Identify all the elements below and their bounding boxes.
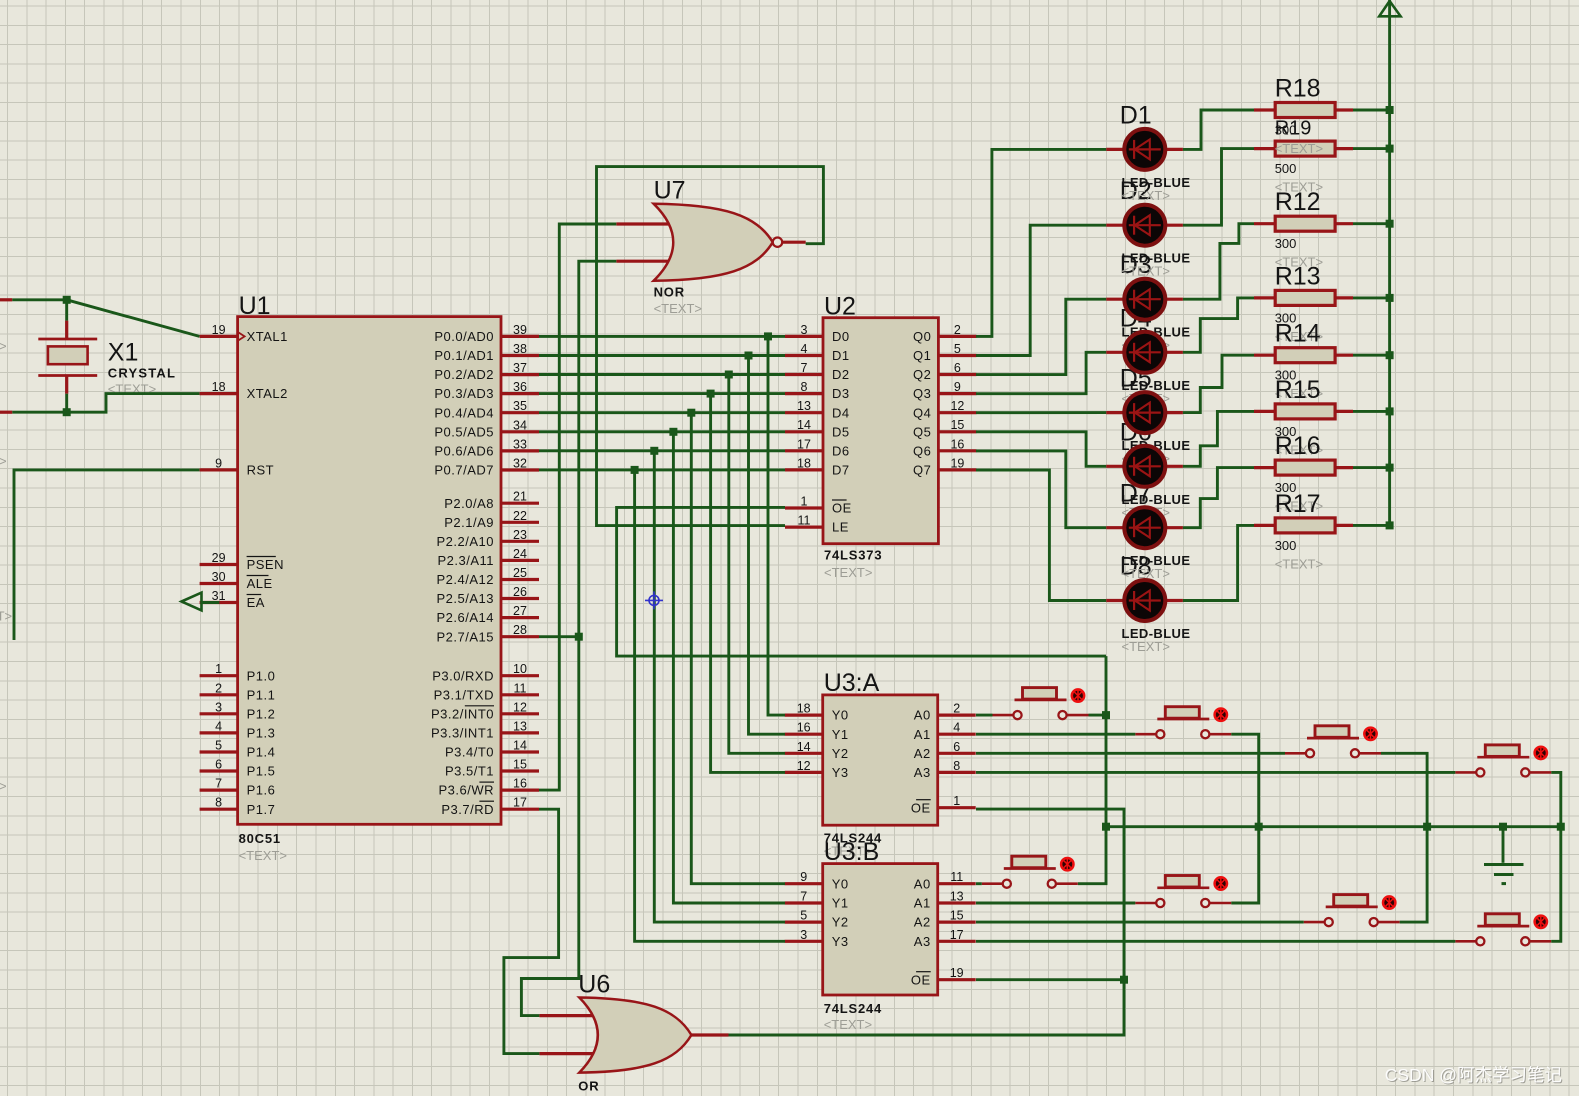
svg-text:7: 7 <box>800 890 807 904</box>
U2 pin 17 D6 <box>785 449 823 452</box>
U1 pin 34 P0.5/AD5 <box>501 430 539 433</box>
ground symbol <box>1484 827 1524 884</box>
svg-text:2: 2 <box>215 681 222 695</box>
svg-text:P0.3/AD3: P0.3/AD3 <box>434 386 494 401</box>
U2 pin 9 Q3 <box>938 392 976 395</box>
svg-text:P3.2/INT0: P3.2/INT0 <box>431 706 494 721</box>
svg-text:D1: D1 <box>832 348 850 363</box>
svg-text:38: 38 <box>513 342 527 356</box>
svg-text:P0.1/AD1: P0.1/AD1 <box>434 348 494 363</box>
wire P0.7 bus drop vertical <box>635 470 785 941</box>
microcontroller U1 80C51 body <box>238 317 501 825</box>
U1 pin 3 P1.2 <box>200 712 238 715</box>
U1 pin 6 P1.5 <box>200 769 238 772</box>
edge pin stub top-left <box>0 298 12 301</box>
wire common column 2 <box>1231 734 1258 903</box>
op-gate U7 NOR body <box>654 204 773 281</box>
svg-text:26: 26 <box>513 585 527 599</box>
svg-text:39: 39 <box>513 323 527 337</box>
svg-text:XTAL2: XTAL2 <box>247 386 288 401</box>
U3:A pin 12 Y3 <box>785 771 823 774</box>
U1 pin 31 EA <box>200 601 238 604</box>
wire XTAL2 net: edge to riser <box>12 394 199 413</box>
wire LED D3 to resistor R12 <box>1183 224 1254 300</box>
junction VCC bus at R17 <box>1386 521 1394 529</box>
svg-text:RST: RST <box>247 463 275 478</box>
svg-text:R18: R18 <box>1275 75 1321 103</box>
wire U3:A A1 to SW2 <box>976 733 1135 736</box>
svg-text:15: 15 <box>950 909 964 923</box>
EA input terminal arrow <box>182 593 202 611</box>
OR gate U6 input stub 2 <box>539 1052 594 1055</box>
svg-text:P2.0/A8: P2.0/A8 <box>444 496 494 511</box>
wire LED D6 to resistor R15 <box>1183 411 1254 466</box>
svg-text:23: 23 <box>513 528 527 542</box>
wire U3:A A2 to SW3 <box>976 752 1285 755</box>
junction node AD0 <box>764 332 772 340</box>
svg-text:LE: LE <box>832 520 849 535</box>
wire Q1 to LED D2 <box>976 225 1106 355</box>
U6 output stub <box>691 1033 728 1036</box>
U1 pin 32 P0.7/AD7 <box>501 468 539 471</box>
svg-text:13: 13 <box>797 399 811 413</box>
svg-text:9: 9 <box>800 870 807 884</box>
push button SW5 <box>982 856 1078 888</box>
svg-text:R16: R16 <box>1275 432 1321 460</box>
svg-text:Q7: Q7 <box>913 463 931 478</box>
U2 pin 13 D4 <box>785 411 823 414</box>
U1 pin 7 P1.6 <box>200 788 238 791</box>
U1 pin 37 P0.2/AD2 <box>501 373 539 376</box>
wire common column 1 <box>1078 656 1106 884</box>
svg-text:P3.0/RXD: P3.0/RXD <box>432 668 494 683</box>
svg-text:17: 17 <box>513 796 527 810</box>
svg-text:5: 5 <box>954 342 961 356</box>
svg-text:T>: T> <box>0 339 7 354</box>
svg-text:U1: U1 <box>239 292 271 320</box>
junction node AD3 <box>707 390 715 398</box>
svg-text:13: 13 <box>950 890 964 904</box>
svg-text:80C51: 80C51 <box>239 831 281 846</box>
svg-text:6: 6 <box>215 758 222 772</box>
svg-text:D7: D7 <box>832 463 850 478</box>
svg-text:3: 3 <box>215 700 222 714</box>
U1 pin 22 P2.1/A9 <box>501 521 539 524</box>
svg-text:R17: R17 <box>1275 490 1321 518</box>
U2 pin 2 Q0 <box>938 335 976 338</box>
wire P0.6 bus drop vertical <box>654 451 785 922</box>
svg-text:9: 9 <box>215 456 222 470</box>
svg-text:11: 11 <box>514 681 527 695</box>
svg-text:OE: OE <box>911 800 931 815</box>
resistor R18 (300 ohm) <box>1254 103 1353 118</box>
U1 pin 36 P0.3/AD3 <box>501 392 539 395</box>
wire XTAL1 net: diagonal to pin 19 <box>67 300 200 337</box>
latch U2 74LS373 body <box>823 318 938 544</box>
svg-text:P1.6: P1.6 <box>247 783 276 798</box>
svg-text:12: 12 <box>950 399 964 413</box>
svg-text:D3: D3 <box>832 386 850 401</box>
svg-text:P2.4/A12: P2.4/A12 <box>437 572 495 587</box>
U1 pin 5 P1.4 <box>200 750 238 753</box>
svg-text:P3.5/T1: P3.5/T1 <box>445 764 494 779</box>
U1 pin 30 ALE <box>200 582 238 585</box>
wire R19 to VCC bus <box>1353 147 1390 150</box>
svg-text:P1.3: P1.3 <box>247 726 276 741</box>
svg-text:15: 15 <box>513 758 527 772</box>
svg-text:P2.1/A9: P2.1/A9 <box>444 515 494 530</box>
svg-text:P1.7: P1.7 <box>247 802 276 817</box>
push button SW6 <box>1135 876 1231 908</box>
U2 pin 6 Q2 <box>938 373 976 376</box>
svg-text:14: 14 <box>513 739 527 753</box>
U3:A pin 18 Y0 <box>785 713 823 716</box>
U1 pin 39 P0.0/AD0 <box>501 335 539 338</box>
junction node P2.7 <box>575 633 583 641</box>
wire Q6 to LED D7 <box>976 451 1106 528</box>
wire XTAL2 net: crystal bottom lead <box>65 394 68 413</box>
resistor R12 (300 ohm) <box>1254 216 1353 231</box>
svg-text:1: 1 <box>801 495 808 509</box>
power VCC terminal arrow <box>1379 1 1400 16</box>
wire ground bus horizontal <box>1106 825 1561 828</box>
svg-text:A2: A2 <box>914 915 931 930</box>
svg-text:OE: OE <box>832 501 852 516</box>
U3:B pin 5 Y2 <box>785 920 823 923</box>
svg-text:300: 300 <box>1275 538 1297 553</box>
junction XTAL2 net at crystal bottom <box>63 408 71 416</box>
svg-text:U3:B: U3:B <box>824 838 880 866</box>
junction node AD5 <box>669 428 677 436</box>
svg-text:500: 500 <box>1275 161 1297 176</box>
U3:B pin 11 A0 <box>938 882 976 885</box>
wire R12 to VCC bus <box>1353 222 1390 225</box>
svg-text:74LS373: 74LS373 <box>824 548 882 563</box>
U2 pin 3 D0 <box>785 335 823 338</box>
edge pin stub mid-left <box>0 411 12 414</box>
svg-text:T>: T> <box>0 779 7 794</box>
svg-text:P1.1: P1.1 <box>247 687 276 702</box>
svg-text:14: 14 <box>797 740 811 754</box>
wire P0.1/AD1 net horizontal (U1 pin to U2 D1) <box>539 354 785 357</box>
U3:A pin 6 A2 <box>938 752 976 755</box>
junction column4 at ground bus <box>1557 823 1565 831</box>
U1 pin 16 P3.6/WR <box>501 788 539 791</box>
svg-text:16: 16 <box>797 721 811 735</box>
wire Q2 to LED D3 <box>976 299 1106 374</box>
U1 XTAL1 clock arrow <box>238 332 245 341</box>
svg-text:21: 21 <box>513 490 527 504</box>
wire U3:B A0 to SW5 <box>976 882 982 885</box>
svg-text:17: 17 <box>950 928 964 942</box>
junction VCC bus at R12 <box>1386 220 1394 228</box>
svg-text:30: 30 <box>212 570 226 584</box>
wire P3.6/WR to U7 input 1 riser <box>539 224 616 790</box>
svg-text:7: 7 <box>801 361 808 375</box>
svg-text:Y2: Y2 <box>832 915 849 930</box>
resistor R19 (500 ohm) <box>1254 141 1353 156</box>
U3:B pin 9 Y0 <box>785 882 823 885</box>
U2 pin 5 Q1 <box>938 354 976 357</box>
U2 pin 16 Q6 <box>938 449 976 452</box>
svg-text:33: 33 <box>513 437 527 451</box>
svg-text:R15: R15 <box>1275 376 1321 404</box>
wire U2 OE net to ground bus riser <box>617 507 1106 656</box>
svg-text:D0: D0 <box>832 329 850 344</box>
svg-text:Y2: Y2 <box>832 746 849 761</box>
svg-text:R14: R14 <box>1275 320 1321 348</box>
svg-text:Y3: Y3 <box>832 934 849 949</box>
wire Q5 to LED D6 <box>976 432 1106 467</box>
U2 pin 15 Q5 <box>938 430 976 433</box>
origin marker (blue crosshair) <box>645 591 663 609</box>
svg-text:A1: A1 <box>914 896 931 911</box>
wire XTAL1 net: crystal top lead <box>65 300 68 321</box>
wire U6 output net <box>729 809 1125 1035</box>
junction VCC bus at R18 <box>1386 106 1394 114</box>
svg-text:PSEN: PSEN <box>247 557 284 572</box>
svg-text:P0.2/AD2: P0.2/AD2 <box>434 367 494 382</box>
wire LED D5 to resistor R14 <box>1183 355 1254 412</box>
LED D1 (LED-BLUE) <box>1106 129 1183 170</box>
wire P0.2 bus drop vertical <box>729 375 785 754</box>
wire P0.1 bus drop vertical <box>749 356 786 735</box>
svg-text:D6: D6 <box>832 443 850 458</box>
svg-text:R12: R12 <box>1275 188 1321 216</box>
wire common column 4 <box>1551 772 1561 941</box>
U2 pin 12 Q4 <box>938 411 976 414</box>
svg-text:P1.4: P1.4 <box>247 745 276 760</box>
svg-text:<TEXT>: <TEXT> <box>1122 639 1170 654</box>
svg-text:74LS244: 74LS244 <box>824 1001 882 1016</box>
U3:A pin 2 A0 <box>938 713 976 716</box>
svg-text:P3.6/WR: P3.6/WR <box>438 783 494 798</box>
svg-text:Q5: Q5 <box>913 424 931 439</box>
svg-text:P2.2/A10: P2.2/A10 <box>437 534 495 549</box>
U1 pin 13 P3.3/INT1 <box>501 731 539 734</box>
svg-text:25: 25 <box>513 566 527 580</box>
svg-text:18: 18 <box>797 456 811 470</box>
U1 pin 10 P3.0/RXD <box>501 674 539 677</box>
CSDN watermark <box>1385 1065 1563 1086</box>
svg-text:Q3: Q3 <box>913 386 931 401</box>
crystal X1 bottom plate <box>38 374 97 377</box>
svg-text:X1: X1 <box>108 339 139 367</box>
U3:B pin 3 Y3 <box>785 940 823 943</box>
U1 pin 19 XTAL1 <box>200 335 238 338</box>
U2 pin 14 D5 <box>785 430 823 433</box>
push button SW1 <box>993 688 1089 720</box>
svg-text:16: 16 <box>950 437 964 451</box>
svg-text:D2: D2 <box>832 367 850 382</box>
svg-text:12: 12 <box>513 700 527 714</box>
U1 pin 23 P2.2/A10 <box>501 540 539 543</box>
svg-text:16: 16 <box>513 777 527 791</box>
U1 pin 17 P3.7/RD <box>501 808 539 811</box>
svg-text:P0.4/AD4: P0.4/AD4 <box>434 405 494 420</box>
junction column2 at ground bus <box>1255 823 1263 831</box>
svg-text:15: 15 <box>950 418 964 432</box>
crystal X1 top plate <box>38 338 97 341</box>
svg-text:22: 22 <box>513 509 527 523</box>
svg-text:1: 1 <box>953 794 960 808</box>
LED D2 (LED-BLUE) <box>1106 205 1183 246</box>
U3:A pin 16 Y1 <box>785 733 823 736</box>
wire P0.4 bus drop vertical <box>691 413 785 884</box>
push button SW2 <box>1135 707 1231 739</box>
svg-text:Q1: Q1 <box>913 348 931 363</box>
wire P0.7/AD7 net horizontal (U1 pin to U2 D7) <box>539 468 785 471</box>
wire U3:B A3 to SW8 <box>976 940 1455 943</box>
wire SW1 right to column 1 <box>1089 714 1107 717</box>
resistor R17 (300 ohm) <box>1254 518 1353 533</box>
svg-text:300: 300 <box>1275 236 1297 251</box>
U2 pin 7 D2 <box>785 373 823 376</box>
LED D4 (LED-BLUE) <box>1106 332 1183 373</box>
U7 output bubble <box>773 238 782 247</box>
svg-text:P2.7/A15: P2.7/A15 <box>437 629 495 644</box>
svg-text:<TEXT>: <TEXT> <box>1122 188 1170 203</box>
svg-text:17: 17 <box>797 437 811 451</box>
svg-text:5: 5 <box>215 739 222 753</box>
wire P2.7 drop down to U6 upper input <box>521 637 578 1016</box>
svg-text:P3.4/T0: P3.4/T0 <box>445 745 494 760</box>
svg-text:36: 36 <box>513 380 527 394</box>
svg-text:Y0: Y0 <box>832 708 849 723</box>
wire R16 to VCC bus <box>1353 466 1390 469</box>
buffer U3:B 74LS244 body <box>823 864 938 995</box>
svg-text:U6: U6 <box>578 971 610 999</box>
svg-text:OR: OR <box>578 1079 599 1094</box>
U2 pin 18 D7 <box>785 468 823 471</box>
wire P0.3 bus drop vertical <box>711 394 785 773</box>
svg-text:CSDN @阿杰学习笔记: CSDN @阿杰学习笔记 <box>1385 1065 1562 1085</box>
junction VCC bus at R19 <box>1386 145 1394 153</box>
U1 pin 2 P1.1 <box>200 693 238 696</box>
svg-text:P2.3/A11: P2.3/A11 <box>437 553 494 568</box>
wire Q7 to LED D8 <box>976 470 1106 601</box>
svg-text:OE: OE <box>911 972 931 987</box>
svg-text:4: 4 <box>953 721 960 735</box>
wire P0.5/AD5 net horizontal (U1 pin to U2 D5) <box>539 430 785 433</box>
svg-text:14: 14 <box>797 418 811 432</box>
svg-text:P2.6/A14: P2.6/A14 <box>437 610 495 625</box>
wire P0.0/AD0 net horizontal (U1 pin to U2 D0) <box>539 335 785 338</box>
U3:B pin 15 A2 <box>938 920 976 923</box>
svg-text:4: 4 <box>215 719 222 733</box>
resistor R16 (300 ohm) <box>1254 460 1353 475</box>
svg-text:P3.1/TXD: P3.1/TXD <box>434 687 494 702</box>
svg-text:P0.6/AD6: P0.6/AD6 <box>434 444 494 459</box>
svg-text:D5: D5 <box>832 424 850 439</box>
resistor R13 (300 ohm) <box>1254 290 1353 305</box>
U1 pin 24 P2.3/A11 <box>501 559 539 562</box>
U2 pin 8 D3 <box>785 392 823 395</box>
svg-text:<TEXT>: <TEXT> <box>824 1017 872 1032</box>
svg-text:ALE: ALE <box>247 576 273 591</box>
buffer U3:A 74LS244 body <box>823 695 938 825</box>
U3:B pin 19 OE <box>938 978 976 981</box>
resistor R15 (300 ohm) <box>1254 404 1353 419</box>
svg-text:8: 8 <box>801 380 808 394</box>
svg-text:R13: R13 <box>1275 262 1321 290</box>
svg-text:11: 11 <box>798 514 811 528</box>
svg-text:Y1: Y1 <box>832 727 849 742</box>
crystal X1 bottom lead <box>65 376 68 394</box>
svg-text:13: 13 <box>513 719 527 733</box>
svg-text:XTAL1: XTAL1 <box>247 329 288 344</box>
U1 pin 28 P2.7/A15 <box>501 635 539 638</box>
svg-text:11: 11 <box>950 870 963 884</box>
U1 pin 38 P0.1/AD1 <box>501 354 539 357</box>
svg-text:5: 5 <box>800 909 807 923</box>
junction node AD1 <box>745 352 753 360</box>
wire U3:B A1 to SW6 <box>976 902 1135 905</box>
svg-text:37: 37 <box>513 361 527 375</box>
svg-text:A0: A0 <box>914 708 931 723</box>
svg-text:19: 19 <box>950 966 964 980</box>
svg-text:6: 6 <box>954 361 961 375</box>
svg-text:Q6: Q6 <box>913 443 931 458</box>
or-gate U6 OR body <box>579 998 691 1073</box>
svg-text:P0.5/AD5: P0.5/AD5 <box>434 424 494 439</box>
wire P0.0 bus drop vertical <box>768 336 785 715</box>
svg-text:19: 19 <box>950 456 964 470</box>
svg-text:P1.2: P1.2 <box>247 706 276 721</box>
wire R15 to VCC bus <box>1353 410 1390 413</box>
wire P2.7/A15 pin to junction <box>539 635 579 638</box>
svg-text:U7: U7 <box>654 177 686 205</box>
crystal X1 body <box>48 346 88 364</box>
svg-text:P3.3/INT1: P3.3/INT1 <box>431 726 494 741</box>
svg-text:A1: A1 <box>914 727 931 742</box>
wire LED D4 to resistor R13 <box>1183 298 1254 352</box>
junction column3 at ground bus <box>1423 823 1431 831</box>
U1 pin 33 P0.6/AD6 <box>501 449 539 452</box>
U1 pin 21 P2.0/A8 <box>501 502 539 505</box>
U3:A pin 8 A3 <box>938 771 976 774</box>
svg-text:T>: T> <box>0 454 7 469</box>
svg-text:29: 29 <box>212 551 226 565</box>
U3:B pin 7 Y1 <box>785 901 823 904</box>
svg-text:D1: D1 <box>1120 101 1152 129</box>
junction column1 at ground bus <box>1102 823 1110 831</box>
svg-text:24: 24 <box>513 547 527 561</box>
LED D6 (LED-BLUE) <box>1106 446 1183 487</box>
svg-text:19: 19 <box>212 323 226 337</box>
junction node AD2 <box>725 371 733 379</box>
U1 pin 8 P1.7 <box>200 808 238 811</box>
wire RST net <box>14 470 200 640</box>
svg-text:8: 8 <box>953 759 960 773</box>
wire VCC bus vertical <box>1388 0 1391 525</box>
resistor R14 (300 ohm) <box>1254 348 1353 363</box>
wire common column 3 <box>1381 753 1427 922</box>
wire LED D1 to resistor R18 <box>1183 110 1254 149</box>
wire U3:B OE branch <box>976 978 1124 981</box>
svg-text:9: 9 <box>954 380 961 394</box>
svg-text:Y1: Y1 <box>832 896 849 911</box>
svg-text:R19: R19 <box>1275 118 1312 140</box>
wire Q0 to LED D1 <box>976 149 1106 336</box>
svg-text:18: 18 <box>212 380 226 394</box>
svg-text:EA: EA <box>247 595 265 610</box>
svg-text:35: 35 <box>513 399 527 413</box>
svg-text:Y3: Y3 <box>832 765 849 780</box>
push button SW7 <box>1304 895 1400 927</box>
svg-text:U3:A: U3:A <box>824 669 880 697</box>
wire LED D7 to resistor R16 <box>1183 468 1254 528</box>
